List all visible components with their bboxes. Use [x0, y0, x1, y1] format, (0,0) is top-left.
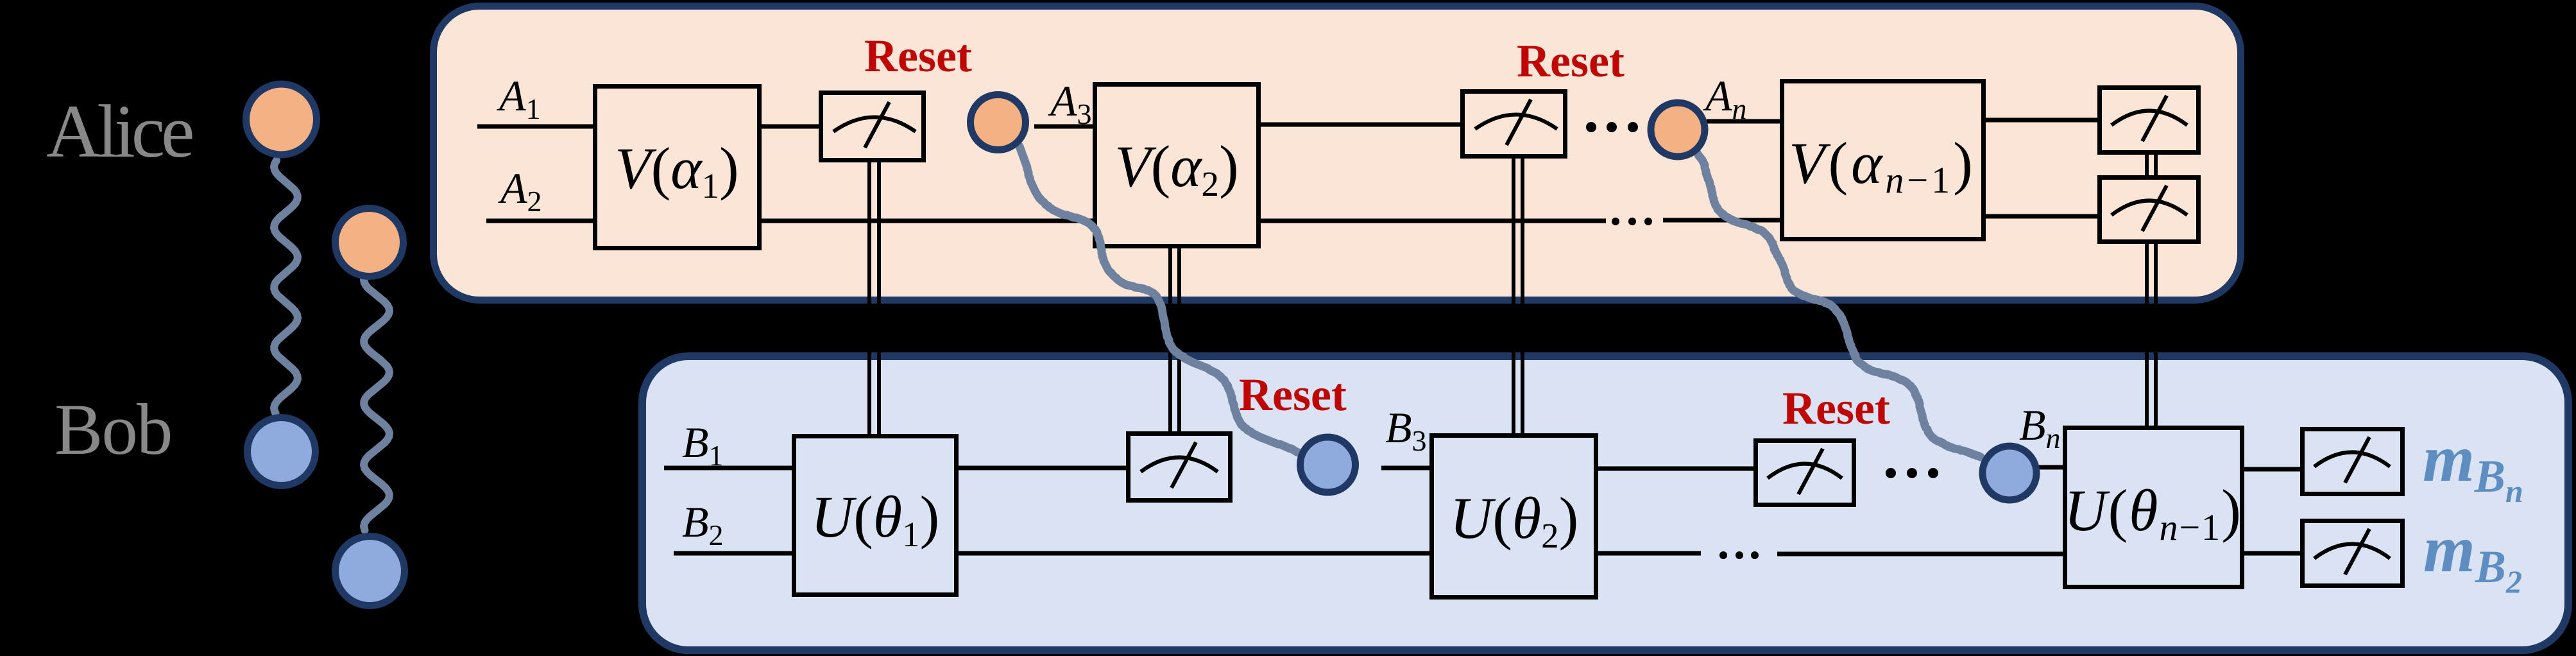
wire B2 stub	[674, 551, 792, 556]
reset qubit circle An	[1651, 103, 1705, 157]
double line V2 to measB1	[1168, 248, 1172, 431]
reset qubit circle Bn	[1983, 446, 2036, 500]
gate V(an-1)	[1782, 82, 1984, 239]
wire2 U2 to dots	[1598, 551, 1701, 556]
Alice box	[434, 6, 2241, 300]
meas A4	[2100, 178, 2199, 242]
meas A3	[2100, 88, 2199, 153]
gate U(th1)	[794, 436, 957, 595]
svg-text:Reset: Reset	[1517, 35, 1625, 87]
meas B2	[1756, 441, 1854, 505]
gate U(th2)	[1432, 436, 1596, 598]
svg-text:V(α2): V(α2)	[1114, 134, 1238, 203]
double line measA4 to U3	[2145, 244, 2149, 426]
wire U2 to meas	[1598, 467, 1753, 471]
wire A1 stub	[477, 125, 593, 129]
wire2 U3 to meas4	[2244, 551, 2300, 556]
dots wire B1	[1886, 468, 1938, 478]
dots wire A2	[1612, 218, 1652, 225]
gate V(a2)	[1095, 85, 1259, 246]
gate U(thn-1)	[2065, 428, 2242, 587]
dots wire B2	[1719, 551, 1759, 559]
gate V(a1)	[595, 87, 760, 248]
wire2 V2 right	[1261, 219, 1606, 223]
qubit circle Alice 1	[246, 84, 317, 155]
meas B1	[1129, 434, 1231, 501]
classical double lines	[869, 155, 2156, 434]
wire An stub	[1707, 119, 1780, 124]
meas B4	[2303, 521, 2403, 586]
wire B1 stub	[664, 466, 792, 470]
qubit circle Bob 2	[336, 537, 405, 606]
wire A3 stub	[1034, 125, 1093, 129]
Bob box	[642, 356, 2568, 650]
double line measA3 to measA4	[2145, 155, 2149, 175]
svg-text:U(θ2): U(θ2)	[1450, 485, 1578, 555]
meas B3	[2303, 429, 2403, 494]
wire Bn stub	[2039, 465, 2063, 470]
svg-text:Alice: Alice	[46, 89, 192, 173]
svg-text:Reset: Reset	[864, 30, 972, 82]
wire A2 stub	[486, 219, 593, 223]
svg-text:Bob: Bob	[55, 390, 171, 470]
svg-text:Reset: Reset	[1239, 369, 1347, 420]
svg-text:Reset: Reset	[1782, 383, 1890, 434]
wire V1 to meas	[762, 125, 819, 129]
wire2 V1 to V2	[762, 219, 1093, 223]
svg-text:U(θ1): U(θ1)	[811, 484, 939, 554]
wire U3 to meas top	[2244, 467, 2300, 472]
wire V3 to meas	[1986, 118, 2097, 123]
qubit circle Bob 1	[248, 418, 316, 486]
reset wire B	[1697, 153, 1981, 457]
double line measA2 to U2	[1512, 159, 1515, 433]
reset qubit circle B3	[1301, 437, 1356, 492]
wire2 resume to V3	[1663, 218, 1780, 223]
double line measA1 to U1	[867, 162, 871, 434]
entanglement squiggle 1	[274, 160, 298, 413]
qubit circle Alice 2	[336, 209, 404, 277]
entanglement squiggle 2	[364, 276, 389, 530]
wire2 V3 to meas4	[1986, 214, 2097, 219]
reset qubit circle A3	[971, 95, 1026, 150]
wire2 resume to U3	[1777, 552, 2063, 557]
wire V2 to meas	[1261, 123, 1460, 127]
wire U1 to meas	[959, 466, 1126, 470]
wire2 U1 to U2	[959, 551, 1429, 556]
meas A2	[1463, 92, 1565, 157]
dots wire A1	[1586, 122, 1638, 132]
wire B3 stub	[1381, 466, 1429, 470]
meas A1	[821, 93, 924, 160]
svg-text:V(α1): V(α1)	[615, 135, 738, 205]
reset wire A	[1019, 146, 1302, 454]
